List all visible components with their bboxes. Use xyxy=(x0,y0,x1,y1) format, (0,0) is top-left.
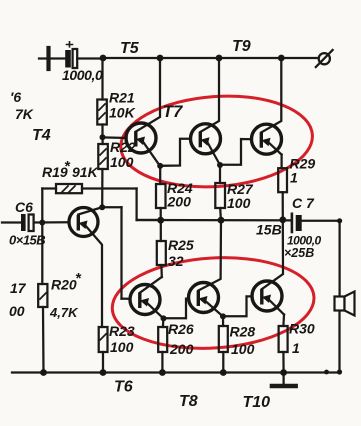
svg-text:91K: 91K xyxy=(72,164,99,180)
svg-text:7K: 7K xyxy=(15,106,34,122)
transistor T7 xyxy=(191,124,221,154)
svg-text:C6: C6 xyxy=(15,199,33,215)
transistor T8 emitter lead xyxy=(205,301,223,317)
chain wire T6 emitter to T8 base xyxy=(164,299,189,319)
driver transistor T4 emitter lead xyxy=(85,225,103,328)
wire T10 emitter to R30 xyxy=(282,315,285,327)
wire C7 to speaker line xyxy=(302,220,340,222)
speaker wire from C7 xyxy=(338,221,340,297)
wire to R19 left lead xyxy=(42,187,56,189)
svg-text:4,7K: 4,7K xyxy=(49,305,79,320)
input terminal bar xyxy=(46,48,50,69)
node T8 emitter xyxy=(220,313,226,319)
transistor T6 emitter lead xyxy=(147,303,164,319)
svg-text:1000,0: 1000,0 xyxy=(62,67,103,83)
wire terminal to capacitor C(1000,0) xyxy=(51,57,66,59)
transistor T8 xyxy=(189,283,219,313)
svg-text:R23: R23 xyxy=(109,323,135,339)
svg-text:00: 00 xyxy=(9,303,25,319)
wire C6 input lead xyxy=(2,221,21,223)
wire top rail to R21 xyxy=(101,58,103,100)
svg-text:1: 1 xyxy=(290,170,298,186)
wire R22 to driver collector node xyxy=(101,169,103,207)
resistor R30 body xyxy=(279,326,288,352)
node speaker corner xyxy=(337,218,342,223)
transistor T9 xyxy=(252,124,282,154)
svg-text:32: 32 xyxy=(168,253,184,269)
resistor R21 body xyxy=(97,100,107,125)
node bottom rail / R20 xyxy=(40,369,47,376)
wire T6 emitter to R26 xyxy=(162,319,165,328)
svg-text:T8: T8 xyxy=(179,393,198,410)
transistor T10 collector lead xyxy=(262,220,283,289)
transistor T4 (driver) xyxy=(69,208,98,237)
resistor R27 body xyxy=(215,183,225,208)
svg-text:T9: T9 xyxy=(232,38,251,55)
svg-text:100: 100 xyxy=(110,154,134,170)
resistor R20 body xyxy=(38,284,47,307)
node driver collector xyxy=(99,204,105,210)
transistor T10 emitter lead xyxy=(268,299,284,315)
wire T7 emitter to R27 xyxy=(219,165,221,183)
resistor R25 body xyxy=(157,241,166,265)
wire R30 to bottom rail xyxy=(282,352,284,373)
svg-text:R30: R30 xyxy=(289,321,315,337)
svg-text:15B: 15B xyxy=(256,222,282,238)
svg-text:′6: ′6 xyxy=(10,89,21,105)
node top rail / T9 collector xyxy=(278,55,285,62)
wire R28 to bottom rail xyxy=(222,352,224,373)
node T7 emitter xyxy=(217,162,223,168)
hatch marks R19 xyxy=(62,186,75,192)
wire R19 right lead to feedback corner xyxy=(82,187,137,189)
svg-text:1: 1 xyxy=(292,340,300,356)
node C6 / driver base xyxy=(39,220,45,226)
node bottom rail / R23 xyxy=(100,369,107,376)
wire base node down to R20 xyxy=(41,223,43,285)
resistor R29 body xyxy=(278,168,287,192)
wire T9 emitter to R29 xyxy=(280,155,282,169)
annotation ellipse (top transistor group) xyxy=(118,90,316,193)
top supply rail xyxy=(103,57,318,59)
wire capacitor to top rail xyxy=(77,57,103,59)
svg-text:×25B: ×25B xyxy=(284,246,314,260)
wire feedback vertical xyxy=(135,189,137,221)
svg-text:T6: T6 xyxy=(114,379,133,396)
svg-text:R21: R21 xyxy=(109,90,135,106)
transistor T5 emitter lead xyxy=(143,141,161,166)
node output rail / R24 / R25 xyxy=(157,217,164,224)
speaker wire to bottom rail xyxy=(338,311,340,373)
hatch marks R22 xyxy=(100,149,106,164)
node bottom rail right corner xyxy=(337,369,342,374)
svg-text:T7: T7 xyxy=(163,102,184,121)
resistor R28 body xyxy=(219,326,228,352)
node top rail / T5 collector xyxy=(157,55,164,62)
node bottom rail / ground xyxy=(280,369,287,376)
transistor T6 collector lead xyxy=(140,277,162,293)
capacitor C6 plate (hollow) xyxy=(29,215,34,232)
wire R27 to output rail xyxy=(219,208,222,220)
transistor T9 emitter lead xyxy=(268,142,282,155)
transistor T5 xyxy=(126,123,156,153)
wire T8 emitter to R28 xyxy=(222,317,224,327)
wire base node to R22 xyxy=(101,137,103,144)
bottom ground rail xyxy=(12,371,340,373)
svg-text:200: 200 xyxy=(169,341,194,357)
svg-text:R25: R25 xyxy=(168,237,194,253)
node bottom rail / speaker xyxy=(324,370,329,375)
node bottom rail / R28 xyxy=(220,369,227,376)
speaker symbol xyxy=(335,292,355,316)
wire drive line to T6 base xyxy=(122,297,131,299)
svg-text:100: 100 xyxy=(231,341,255,357)
svg-text:R28: R28 xyxy=(230,324,256,340)
svg-text:C 7: C 7 xyxy=(292,195,315,211)
transistor T6 xyxy=(130,285,160,315)
svg-text:T4: T4 xyxy=(32,127,51,144)
capacitor C7 plate (solid) xyxy=(296,215,302,231)
capacitor 1000,0 positive plate (hollow) xyxy=(73,49,78,68)
wire C6 to driver base node xyxy=(34,221,69,224)
wire R24 to output rail xyxy=(160,208,162,220)
hatch mark R23 xyxy=(100,334,106,340)
wire T5 emitter to R24 xyxy=(159,166,161,184)
resistor R19 body xyxy=(56,184,82,193)
resistor R23 body xyxy=(99,327,108,352)
output terminal slash xyxy=(316,50,333,67)
svg-text:0×15B: 0×15B xyxy=(9,233,45,248)
transistor T5 collector lead xyxy=(136,58,160,132)
driver transistor T4 collector lead xyxy=(78,207,102,214)
ground bar xyxy=(272,384,296,389)
capacitor C7 plate (thin) xyxy=(291,214,294,232)
wire R25 to T6 collector xyxy=(160,265,163,277)
node top rail / input cap xyxy=(100,55,107,62)
wire base node up to R19 xyxy=(41,189,43,223)
chain wire T7 emitter to T9 base xyxy=(220,139,252,165)
hatch marks R21 xyxy=(99,104,105,119)
transistor T10 xyxy=(252,281,282,311)
wire R21 to base node xyxy=(101,125,103,138)
wire R23 to bottom rail xyxy=(102,352,104,373)
drive line vertical to T6 base xyxy=(120,207,122,298)
transistor T7 emitter lead xyxy=(207,142,220,166)
annotation ellipse (bottom transistor group) xyxy=(110,252,317,354)
svg-text:T5: T5 xyxy=(120,40,140,57)
wire output rail to R25 xyxy=(160,220,162,241)
input terminal stub xyxy=(39,57,47,59)
node top rail / T7 collector xyxy=(216,55,223,62)
wire feedback to output rail xyxy=(137,219,161,221)
resistor R26 body xyxy=(158,327,167,352)
resistor R24 body xyxy=(156,184,166,208)
capacitor C6 plate (solid) xyxy=(21,214,26,231)
node output rail / R29 / T10 collector xyxy=(279,216,286,223)
output terminal circle xyxy=(319,53,330,64)
capacitor 1000,0 negative plate (solid) xyxy=(65,50,71,68)
node T5 emitter xyxy=(157,163,163,169)
chain wire T5 emitter to T7 base xyxy=(160,139,190,166)
node output rail / R27 / T8 collector xyxy=(218,217,225,224)
wire R29 to output rail xyxy=(282,192,284,220)
svg-text:R22: R22 xyxy=(110,139,136,155)
wire R20 to bottom rail xyxy=(42,307,45,373)
svg-text:R26: R26 xyxy=(168,321,194,337)
svg-text:R20: R20 xyxy=(51,277,77,293)
wire driver collector node to drive line xyxy=(102,206,121,208)
node bottom rail / R26 xyxy=(159,369,166,376)
wire R26 to bottom rail xyxy=(161,352,163,373)
svg-text:T10: T10 xyxy=(243,394,271,411)
chain wire T8 emitter to T10 base xyxy=(223,296,252,316)
transistor T7 collector lead xyxy=(200,58,219,132)
resistor R22 body xyxy=(98,144,108,169)
ground stub xyxy=(282,373,284,385)
svg-text:100: 100 xyxy=(110,339,134,355)
svg-text:10K: 10K xyxy=(109,105,136,121)
hatch mark R20 xyxy=(40,293,46,299)
node T5 base xyxy=(100,134,106,140)
svg-text:17: 17 xyxy=(10,280,27,296)
wire base node to transistor T5 base xyxy=(103,136,127,139)
transistor T9 collector lead xyxy=(261,58,281,132)
svg-text:200: 200 xyxy=(167,194,192,210)
node T6 emitter xyxy=(161,315,167,321)
polarity mark of capacitor 1000,0 xyxy=(67,42,73,47)
output rail (15B node) xyxy=(137,219,291,222)
svg-text:100: 100 xyxy=(227,195,251,211)
transistor T8 collector lead xyxy=(198,220,221,291)
